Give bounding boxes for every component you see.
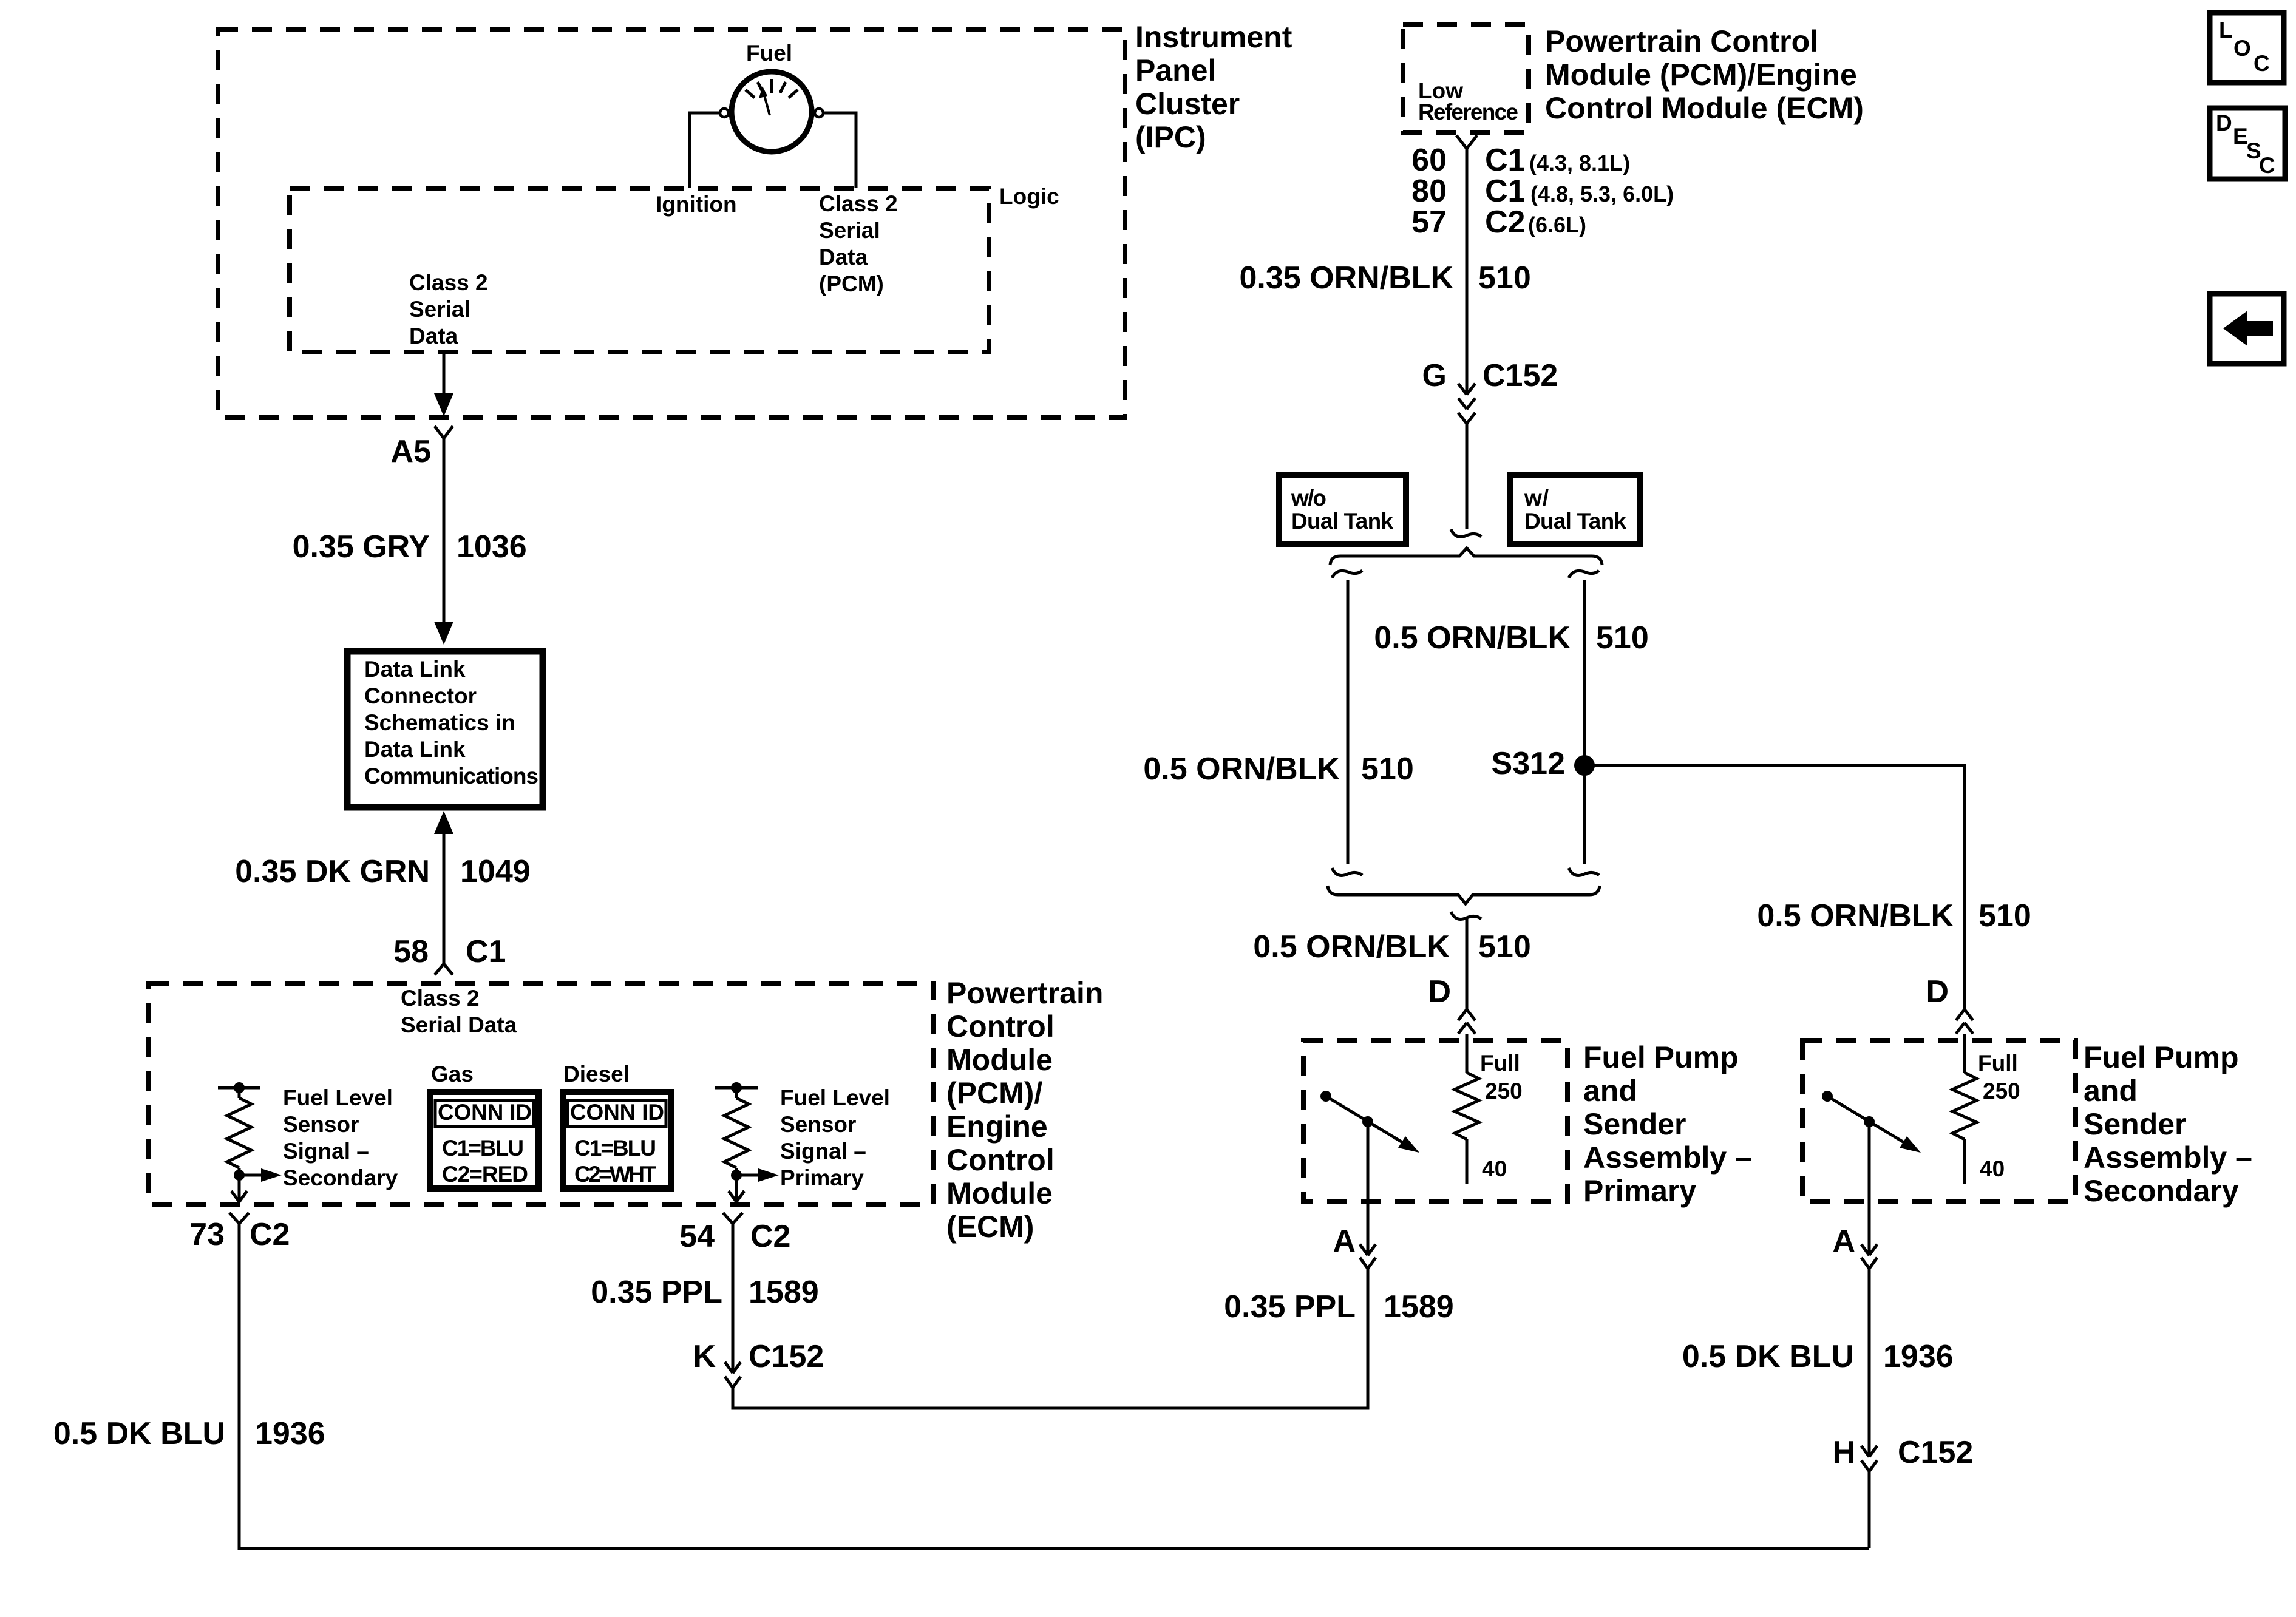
svg-text:1936: 1936: [255, 1416, 325, 1451]
svg-text:Serial: Serial: [409, 297, 470, 322]
svg-text:Control: Control: [946, 1009, 1055, 1043]
svg-text:Control: Control: [946, 1143, 1055, 1177]
w/o dual tank box: [1279, 475, 1406, 544]
svg-text:Module: Module: [946, 1176, 1053, 1210]
svg-text:Class 2: Class 2: [409, 270, 488, 295]
squiggle below merge brace: [1451, 912, 1481, 919]
conn id table diesel: [563, 1092, 671, 1188]
svg-text:A: A: [1832, 1224, 1855, 1259]
svg-text:(4.3, 8.1L): (4.3, 8.1L): [1529, 151, 1630, 175]
svg-text:Fuel Level: Fuel Level: [283, 1085, 393, 1110]
IPC instrument panel cluster box: [218, 29, 1125, 418]
svg-text:Dual Tank: Dual Tank: [1524, 509, 1626, 534]
svg-text:C1: C1: [466, 934, 506, 969]
wire 54 C2 down to K C152: [732, 1224, 735, 1373]
wire gauge right terminal to Class 2 Serial Data: [823, 113, 856, 188]
wire A5 to data link connector box: [443, 438, 446, 622]
svg-text:G: G: [1422, 358, 1447, 393]
connector D primary (double chevron): [1458, 1009, 1475, 1034]
wire left branch (w/o dual tank): [1347, 580, 1350, 864]
svg-text:510: 510: [1596, 620, 1649, 656]
back arrow icon: [2223, 311, 2273, 346]
svg-text:0.5 ORN/BLK: 0.5 ORN/BLK: [1374, 620, 1571, 656]
svg-text:Module: Module: [946, 1043, 1053, 1077]
svg-text:250: 250: [1983, 1079, 2020, 1103]
connector A primary (arrow and chevron): [1360, 1244, 1376, 1269]
arrow into data link box: [434, 622, 453, 645]
label DESC: [2216, 110, 2275, 178]
svg-text:Secondary: Secondary: [2084, 1174, 2239, 1208]
svg-text:K: K: [693, 1339, 716, 1374]
label Data Link Connector Schematics in Data Link Communications: [364, 657, 538, 788]
svg-text:0.35 ORN/BLK: 0.35 ORN/BLK: [1239, 260, 1453, 296]
svg-text:0.35 PPL: 0.35 PPL: [1224, 1289, 1356, 1324]
svg-text:0.35 GRY: 0.35 GRY: [293, 529, 430, 564]
svg-text:E: E: [2233, 124, 2248, 149]
svg-text:Serial Data: Serial Data: [401, 1012, 517, 1037]
svg-text:Diesel: Diesel: [563, 1062, 630, 1086]
svg-text:58: 58: [393, 934, 429, 969]
svg-text:(IPC): (IPC): [1135, 120, 1206, 154]
svg-text:C2=RED: C2=RED: [442, 1162, 528, 1187]
svg-text:C2: C2: [250, 1217, 290, 1252]
svg-text:Fuel Pump: Fuel Pump: [2084, 1040, 2239, 1074]
svg-text:D: D: [1926, 974, 1949, 1009]
svg-text:0.5 DK BLU: 0.5 DK BLU: [1682, 1339, 1854, 1374]
svg-text:Primary: Primary: [780, 1165, 864, 1190]
split brace upward: [1330, 548, 1602, 565]
svg-text:Signal –: Signal –: [780, 1139, 866, 1164]
svg-text:0.5 ORN/BLK: 0.5 ORN/BLK: [1143, 751, 1340, 787]
svg-text:Class 2: Class 2: [819, 191, 898, 216]
svg-text:Data: Data: [409, 324, 458, 348]
resistor fuel level sensor secondary: [218, 1082, 282, 1202]
svg-text:73: 73: [189, 1217, 225, 1252]
svg-text:Secondary: Secondary: [283, 1165, 398, 1190]
svg-text:Full: Full: [1480, 1051, 1520, 1076]
svg-text:0.5 DK BLU: 0.5 DK BLU: [53, 1416, 225, 1451]
svg-text:1589: 1589: [1384, 1289, 1454, 1324]
label LOC: [2219, 18, 2270, 76]
svg-text:C1=BLU: C1=BLU: [574, 1136, 656, 1161]
wire primary wiper down to A: [1367, 1122, 1370, 1255]
label Class 2 Serial Data (PCM box): [401, 986, 517, 1037]
label Instrument Panel Cluster (IPC): [1135, 20, 1292, 154]
svg-text:510: 510: [1978, 898, 2031, 934]
svg-text:0.5 ORN/BLK: 0.5 ORN/BLK: [1253, 929, 1450, 964]
connector K C152 (arrow and chevron): [725, 1362, 741, 1388]
svg-text:w/o: w/o: [1291, 486, 1326, 510]
svg-text:Reference: Reference: [1418, 100, 1518, 124]
svg-text:Fuel: Fuel: [746, 41, 792, 66]
arrow up into data link box bottom: [434, 811, 453, 834]
svg-text:Class 2: Class 2: [401, 986, 480, 1011]
switch wiper primary pump: [1320, 1091, 1419, 1153]
DESC reference box: [2210, 108, 2285, 179]
logic box inside IPC: [290, 188, 989, 352]
squiggle start of right branch: [1569, 571, 1599, 578]
resistor primary pump sender (Full 250 / 40): [1455, 1034, 1479, 1184]
connector G C152 (arrow chevron Y): [1458, 384, 1475, 424]
svg-text:CONN ID: CONN ID: [570, 1100, 664, 1125]
svg-text:Module (PCM)/Engine: Module (PCM)/Engine: [1545, 58, 1857, 92]
svg-text:Fuel Pump: Fuel Pump: [1583, 1040, 1739, 1074]
connector D secondary (double chevron): [1956, 1009, 1973, 1034]
label Fuel Pump and Sender Assembly - Secondary: [2084, 1040, 2252, 1208]
svg-text:D: D: [1428, 974, 1451, 1009]
LOC reference box: [2210, 13, 2284, 83]
svg-text:1936: 1936: [1883, 1339, 1954, 1374]
svg-text:D: D: [2216, 110, 2232, 135]
svg-text:Fuel Level: Fuel Level: [780, 1085, 890, 1110]
svg-text:A: A: [1333, 1224, 1356, 1259]
connector 58 C1 (half-connector): [435, 964, 453, 975]
svg-text:80: 80: [1411, 174, 1447, 209]
svg-text:C152: C152: [1898, 1435, 1973, 1470]
svg-text:Communications: Communications: [364, 764, 538, 788]
svg-text:Ignition: Ignition: [656, 192, 737, 217]
svg-text:Powertrain Control: Powertrain Control: [1545, 24, 1818, 58]
svg-text:Connector: Connector: [364, 683, 477, 708]
resistor fuel level sensor primary: [715, 1082, 779, 1202]
connector A5 (half-connector Y): [435, 426, 453, 438]
svg-text:Data Link: Data Link: [364, 657, 466, 682]
svg-text:C1: C1: [1485, 174, 1525, 209]
svg-text:510: 510: [1478, 929, 1531, 964]
wire 73 C2 down and across bottom to secondary pump: [239, 1224, 1869, 1548]
svg-text:Control Module (ECM): Control Module (ECM): [1545, 91, 1864, 125]
svg-text:60: 60: [1411, 143, 1447, 178]
svg-text:C2: C2: [1485, 205, 1525, 240]
svg-text:Sensor: Sensor: [780, 1112, 856, 1137]
svg-text:and: and: [1583, 1074, 1637, 1108]
svg-text:w/: w/: [1524, 486, 1549, 510]
svg-text:C: C: [2254, 51, 2270, 76]
svg-text:Schematics in: Schematics in: [364, 710, 515, 735]
connector H C152 (chevron and Y): [1861, 1446, 1877, 1471]
label w/ Dual Tank: [1524, 486, 1626, 534]
wire merge to primary pump D: [1466, 918, 1469, 1009]
w/ dual tank box: [1510, 475, 1640, 544]
svg-text:C1: C1: [1485, 143, 1525, 178]
svg-text:40: 40: [1980, 1156, 2005, 1181]
resistor secondary pump sender (Full 250 / 40): [1952, 1034, 1977, 1184]
svg-text:54: 54: [679, 1219, 715, 1254]
svg-text:Signal –: Signal –: [283, 1139, 369, 1164]
svg-text:(ECM): (ECM): [946, 1210, 1034, 1244]
label Fuel Level Sensor Signal - Primary: [780, 1085, 890, 1190]
wire H C152 to bottom run: [1868, 1471, 1871, 1548]
svg-text:and: and: [2084, 1074, 2138, 1108]
svg-text:C1=BLU: C1=BLU: [442, 1136, 524, 1161]
svg-text:Assembly –: Assembly –: [1583, 1141, 1752, 1175]
svg-text:Sensor: Sensor: [283, 1112, 359, 1137]
squiggle start of left branch: [1332, 571, 1362, 578]
svg-text:C2: C2: [750, 1219, 790, 1254]
svg-text:Sender: Sender: [1583, 1107, 1686, 1141]
svg-text:Data: Data: [819, 245, 868, 269]
wire 58 C1 to data link box: [443, 834, 446, 964]
label Fuel Pump and Sender Assembly - Primary: [1583, 1040, 1752, 1208]
svg-text:Panel: Panel: [1135, 53, 1216, 87]
svg-text:0.35 PPL: 0.35 PPL: [591, 1275, 722, 1310]
svg-text:Serial: Serial: [819, 218, 880, 243]
wire gauge left terminal to Ignition: [690, 113, 720, 188]
svg-text:L: L: [2219, 18, 2233, 42]
label Powertrain Control Module (PCM)/Engine Control Module (ECM) top: [1545, 24, 1864, 125]
label Class 2 Serial Data (PCM): [819, 191, 898, 296]
svg-text:Engine: Engine: [946, 1110, 1048, 1144]
svg-text:CONN ID: CONN ID: [438, 1100, 532, 1125]
svg-text:C152: C152: [1483, 358, 1558, 393]
svg-text:Assembly –: Assembly –: [2084, 1141, 2252, 1175]
wire low reference to G C152: [1466, 149, 1469, 395]
wire secondary wiper down to A: [1868, 1122, 1871, 1255]
PCM/ECM low reference box: [1403, 25, 1529, 132]
node S312 splice dot: [1574, 755, 1595, 776]
back arrow box: [2210, 294, 2284, 364]
svg-text:Logic: Logic: [999, 184, 1059, 209]
label Powertrain Control Module (PCM)/Engine Control Module (ECM): [946, 976, 1103, 1244]
svg-text:250: 250: [1485, 1079, 1523, 1103]
connector A secondary (arrow and chevron): [1861, 1244, 1877, 1269]
svg-text:40: 40: [1482, 1156, 1507, 1181]
svg-text:Dual Tank: Dual Tank: [1291, 509, 1393, 534]
wire A secondary down to H C152: [1868, 1269, 1871, 1457]
fuel pump and sender assembly secondary box: [1802, 1040, 2076, 1202]
svg-text:Powertrain: Powertrain: [946, 976, 1103, 1010]
PCM/ECM lower box: [149, 983, 934, 1204]
wire K C152 across to primary pump sender: [733, 1269, 1368, 1408]
conn id table gas: [430, 1092, 538, 1188]
arrow into IPC bottom edge: [434, 393, 453, 416]
merge brace downward: [1328, 886, 1600, 904]
connector 73 C2 (half-connector Y): [229, 1213, 249, 1224]
svg-text:Sender: Sender: [2084, 1107, 2187, 1141]
label Low Reference: [1418, 78, 1518, 124]
connector pin Y at low reference: [1456, 135, 1477, 149]
svg-text:0.5 ORN/BLK: 0.5 ORN/BLK: [1757, 898, 1954, 934]
svg-text:Gas: Gas: [431, 1062, 474, 1086]
svg-text:H: H: [1832, 1435, 1855, 1470]
svg-text:1036: 1036: [457, 529, 527, 564]
wire G C152 down to split: [1466, 424, 1469, 529]
svg-text:Cluster: Cluster: [1135, 87, 1240, 121]
svg-text:C152: C152: [749, 1339, 824, 1374]
switch wiper secondary pump: [1822, 1091, 1921, 1153]
svg-text:C: C: [2259, 153, 2275, 178]
fuel pump and sender assembly primary box: [1303, 1040, 1567, 1202]
svg-text:1589: 1589: [749, 1275, 819, 1310]
svg-text:(6.6L): (6.6L): [1528, 212, 1586, 237]
fuel gauge M1: [720, 72, 823, 152]
squiggle end of left branch: [1332, 868, 1362, 875]
svg-text:(4.8, 5.3, 6.0L): (4.8, 5.3, 6.0L): [1530, 181, 1674, 206]
wire end squiggle above split brace: [1451, 529, 1481, 537]
svg-text:57: 57: [1411, 205, 1447, 240]
svg-text:Instrument: Instrument: [1135, 20, 1292, 54]
wire right branch (w/ dual tank): [1583, 580, 1586, 864]
svg-text:Full: Full: [1978, 1051, 2018, 1076]
svg-text:(PCM): (PCM): [819, 271, 884, 296]
svg-text:0.35 DK GRN: 0.35 DK GRN: [235, 854, 430, 889]
svg-text:Primary: Primary: [1583, 1174, 1696, 1208]
svg-text:(PCM)/: (PCM)/: [946, 1076, 1042, 1110]
svg-text:510: 510: [1361, 751, 1414, 787]
wire S312 to secondary pump branch: [1584, 765, 1965, 1009]
label Class 2 Serial Data (logic box): [409, 270, 488, 348]
svg-text:A5: A5: [391, 434, 431, 469]
wire logic box to IPC edge: [443, 352, 446, 395]
squiggle end of right branch: [1569, 868, 1599, 875]
data link connector schematics box: [347, 651, 543, 807]
svg-text:510: 510: [1478, 260, 1531, 296]
svg-text:C2=WHT: C2=WHT: [574, 1162, 656, 1187]
svg-text:1049: 1049: [460, 854, 531, 889]
label Fuel Level Sensor Signal - Secondary: [283, 1085, 398, 1190]
label w/o Dual Tank: [1291, 486, 1393, 534]
connector 54 C2 (half-connector Y): [723, 1213, 742, 1224]
svg-text:O: O: [2233, 36, 2251, 61]
svg-text:Data Link: Data Link: [364, 737, 466, 762]
svg-text:S312: S312: [1492, 746, 1565, 781]
